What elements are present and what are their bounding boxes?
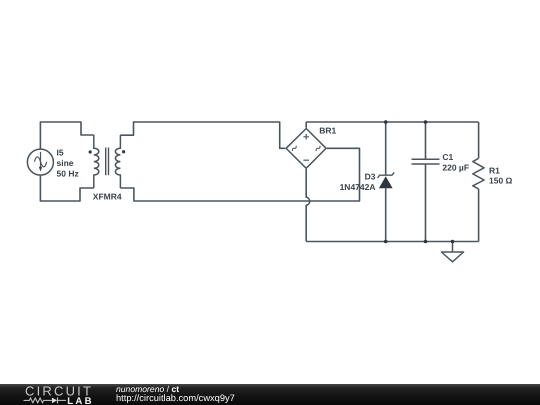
source I5 sine — [35, 157, 47, 167]
BR1 plus sign — [303, 134, 309, 140]
junction dot ground — [451, 240, 455, 244]
wire bottom-left loop — [40, 175, 93, 201]
BR1 minus sign — [303, 159, 309, 161]
transformer core — [105, 148, 107, 176]
wire bottom rail — [306, 241, 478, 243]
wire secondary bottom to bridge right — [120, 148, 359, 201]
transformer phase dot left — [89, 150, 92, 153]
source I5 circle — [27, 149, 53, 175]
transformer phase dot right — [122, 150, 125, 153]
bridge rectifier BR1 diamond — [286, 129, 326, 169]
svg-text:C1: C1 — [442, 152, 453, 162]
junction dot top C1 — [424, 120, 428, 124]
svg-text:150 Ω: 150 Ω — [489, 176, 513, 186]
svg-text:I5: I5 — [57, 147, 64, 157]
logo resistor-diode symbol — [24, 398, 52, 403]
wire bridge top to rail — [305, 122, 307, 128]
svg-text:220 µF: 220 µF — [442, 162, 469, 172]
capacitor C1 plates — [412, 158, 440, 160]
BR1 tilde right — [315, 146, 321, 151]
source I5 arrow — [40, 152, 42, 167]
svg-text:http://circuitlab.com/cwxq9y7: http://circuitlab.com/cwxq9y7 — [116, 393, 235, 403]
junction dot bottom D3 — [384, 240, 388, 244]
resistor R1 zigzag — [473, 158, 484, 189]
svg-text:R1: R1 — [489, 166, 500, 176]
svg-text:LAB: LAB — [67, 396, 94, 405]
svg-text:BR1: BR1 — [319, 125, 336, 135]
junction dot top D3 — [384, 120, 388, 124]
svg-text:sine: sine — [57, 158, 74, 168]
transformer XFMR4 primary winding — [94, 135, 99, 188]
wire C1 branch — [425, 122, 427, 159]
zener diode D3 bar — [378, 172, 395, 178]
svg-text:D3: D3 — [365, 172, 376, 182]
wire D3 branch — [385, 122, 387, 175]
svg-text:50 Hz: 50 Hz — [57, 168, 79, 178]
svg-text:1N4742A: 1N4742A — [340, 182, 376, 192]
wire top-left loop — [40, 122, 93, 149]
zener diode D3 triangle — [379, 176, 393, 188]
wire bridge bottom with hop — [306, 169, 309, 242]
ground — [452, 242, 454, 253]
junction dot bottom C1 — [424, 240, 428, 244]
wire secondary top to bridge left — [120, 122, 285, 148]
transformer XFMR4 secondary winding — [115, 135, 120, 188]
svg-text:XFMR4: XFMR4 — [93, 191, 122, 201]
wire R1 branch — [478, 122, 480, 158]
BR1 tilde left — [291, 146, 297, 151]
wire top rail — [306, 121, 478, 123]
